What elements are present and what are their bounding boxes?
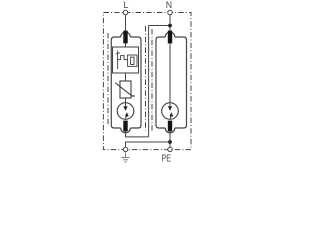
wire L terminal to module pin — [125, 15, 127, 31]
spark gap N-PE — [162, 103, 179, 120]
terminal L — [123, 10, 128, 15]
svg-text:PE: PE — [162, 154, 172, 164]
plug-in contact bump bottom (varistor module) — [121, 128, 131, 133]
disconnector square-wave link — [118, 56, 128, 60]
wire earth terminal link to PE lead — [126, 142, 171, 147]
varistor RV — [115, 81, 135, 98]
plug-in contact bump top (varistor module) — [121, 32, 131, 37]
wire N terminal to module pin — [169, 15, 171, 31]
junction dot at N branch — [168, 24, 172, 28]
plug-in contact bump bottom (spark-gap module) — [165, 128, 175, 133]
terminal earth — [123, 147, 128, 152]
svg-text:L: L — [124, 0, 129, 10]
spark-gap protection module outline — [156, 32, 187, 133]
wire varistor to spark gap — [125, 98, 127, 103]
ground symbol — [122, 152, 130, 162]
wire N pin down to spark gap — [169, 44, 171, 103]
svg-text:N: N — [166, 0, 172, 10]
wire inter-module vertical drop from N — [148, 26, 150, 137]
enclosure dash-dot boundary — [103, 13, 191, 150]
wire spark-gap module pin to PE terminal — [169, 131, 171, 146]
varistor protection module outline — [111, 32, 141, 133]
status indicator window — [128, 55, 137, 66]
disconnector trip tick — [116, 53, 120, 54]
spark gap (varistor module) — [117, 103, 134, 120]
module boundary dash-dot left of varistor module — [107, 33, 109, 127]
module boundary dash-dot right of varistor module — [145, 26, 147, 131]
terminal PE — [168, 147, 173, 152]
contact pin bottom (spark-gap module) — [168, 121, 172, 132]
thermal disconnector with status indicator box — [113, 47, 139, 73]
status indicator flag — [131, 57, 134, 64]
plug-in contact bump top (spark-gap module) — [165, 32, 175, 37]
module boundary dash-dot left of spark-gap module — [151, 29, 153, 131]
junction dot at PE lead — [168, 140, 172, 144]
contact pin top (spark-gap module) — [168, 31, 172, 44]
terminal N — [168, 10, 173, 15]
wire bottom of varistor module to N drop — [126, 131, 149, 137]
contact pin bottom (varistor module) — [123, 121, 127, 132]
disconnector contact stem — [117, 51, 119, 70]
contact pin top (varistor module) — [123, 31, 127, 44]
wire disconnector to varistor — [125, 73, 127, 81]
wire pin to disconnector box — [125, 44, 127, 48]
wire N branch horizontal to inter-module drop — [149, 25, 170, 27]
